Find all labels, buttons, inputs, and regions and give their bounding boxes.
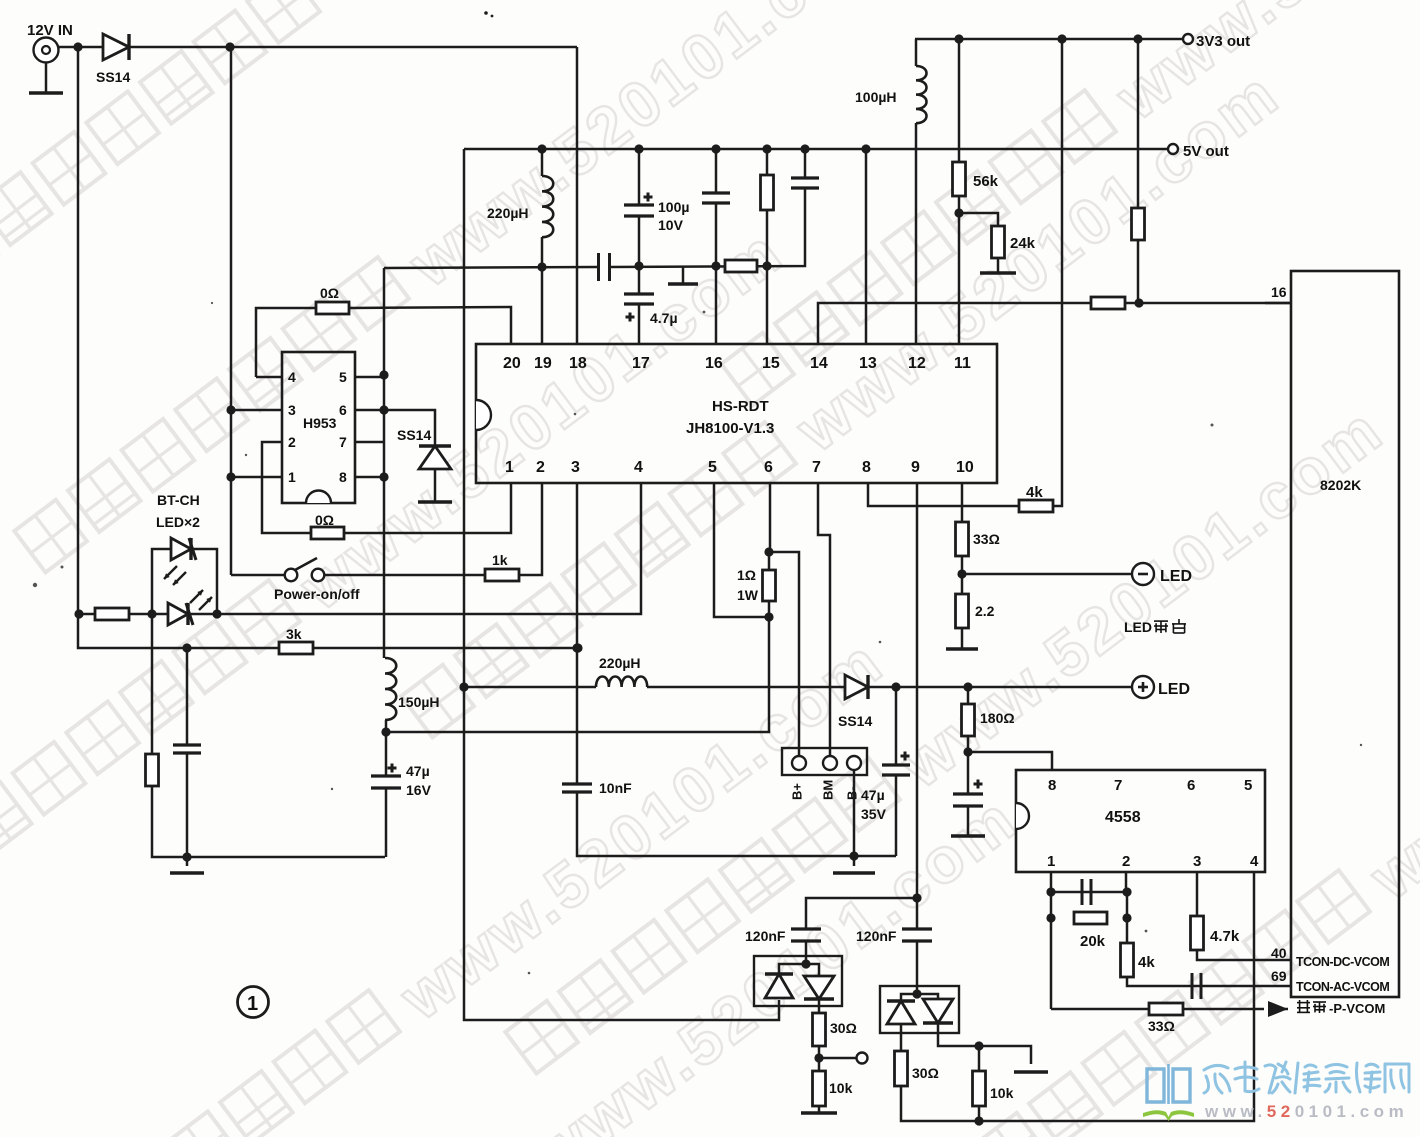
svg-text:1Ω: 1Ω — [737, 567, 756, 583]
svg-text:LED: LED — [1160, 568, 1192, 585]
svg-text:2: 2 — [288, 434, 296, 450]
svg-text:8202K: 8202K — [1320, 477, 1361, 493]
svg-text:1k: 1k — [492, 552, 508, 568]
svg-text:9: 9 — [911, 459, 920, 476]
svg-text:H953: H953 — [303, 415, 337, 431]
svg-text:220µH: 220µH — [599, 655, 641, 671]
svg-text:10k: 10k — [829, 1080, 853, 1096]
svg-text:100µH: 100µH — [855, 89, 897, 105]
svg-text:1: 1 — [288, 469, 296, 485]
svg-text:11: 11 — [954, 355, 971, 372]
svg-text:4: 4 — [1250, 853, 1259, 870]
svg-text:12V IN: 12V IN — [27, 22, 73, 39]
svg-text:14: 14 — [810, 355, 828, 372]
svg-text:4k: 4k — [1026, 484, 1043, 501]
svg-text:150µH: 150µH — [398, 694, 440, 710]
svg-text:13: 13 — [859, 355, 877, 372]
svg-text:4.7µ: 4.7µ — [650, 310, 678, 326]
svg-text:6: 6 — [339, 402, 347, 418]
svg-text:1: 1 — [247, 993, 258, 1015]
svg-text:7: 7 — [812, 459, 821, 476]
svg-text:18: 18 — [569, 355, 587, 372]
svg-text:2: 2 — [536, 459, 545, 476]
svg-text:LED×2: LED×2 — [156, 514, 200, 530]
svg-text:4.7k: 4.7k — [1210, 928, 1240, 945]
svg-text:17: 17 — [632, 355, 650, 372]
svg-text:20k: 20k — [1080, 933, 1106, 950]
svg-text:4558: 4558 — [1105, 809, 1141, 826]
svg-text:47µ: 47µ — [406, 763, 430, 779]
svg-text:1: 1 — [505, 459, 514, 476]
svg-text:120nF: 120nF — [856, 928, 897, 944]
svg-text:12: 12 — [908, 355, 926, 372]
svg-text:30Ω: 30Ω — [912, 1065, 939, 1081]
svg-text:100µ: 100µ — [658, 199, 689, 215]
svg-text:47µ: 47µ — [861, 787, 885, 803]
svg-text:B-: B- — [845, 786, 860, 800]
svg-text:BM: BM — [821, 780, 836, 800]
svg-text:16: 16 — [705, 355, 723, 372]
svg-text:7: 7 — [1114, 777, 1122, 794]
svg-text:24k: 24k — [1010, 235, 1036, 252]
svg-text:5V out: 5V out — [1183, 143, 1229, 160]
svg-text:5: 5 — [339, 369, 347, 385]
svg-text:HS-RDT: HS-RDT — [712, 398, 769, 415]
svg-text:5: 5 — [708, 459, 717, 476]
svg-text:1: 1 — [1047, 853, 1055, 870]
svg-text:3: 3 — [1193, 853, 1201, 870]
svg-text:35V: 35V — [861, 806, 887, 822]
svg-text:40: 40 — [1271, 945, 1287, 961]
svg-text:JH8100-V1.3: JH8100-V1.3 — [686, 420, 774, 437]
svg-text:SS14: SS14 — [96, 69, 130, 85]
svg-text:0Ω: 0Ω — [320, 285, 339, 301]
svg-text:8: 8 — [862, 459, 871, 476]
svg-text:-P-VCOM: -P-VCOM — [1329, 1001, 1385, 1016]
svg-text:180Ω: 180Ω — [980, 710, 1015, 726]
svg-text:4: 4 — [288, 369, 296, 385]
svg-text:220µH: 220µH — [487, 205, 529, 221]
svg-text:0Ω: 0Ω — [315, 512, 334, 528]
svg-text:6: 6 — [764, 459, 773, 476]
svg-text:6: 6 — [1187, 777, 1195, 794]
svg-text:8: 8 — [339, 469, 347, 485]
svg-text:TCON-AC-VCOM: TCON-AC-VCOM — [1296, 980, 1389, 994]
svg-text:69: 69 — [1271, 968, 1287, 984]
svg-text:2.2: 2.2 — [975, 603, 995, 619]
svg-text:B+: B+ — [790, 783, 805, 800]
svg-text:3: 3 — [571, 459, 580, 476]
svg-text:19: 19 — [534, 355, 552, 372]
svg-text:10nF: 10nF — [599, 780, 632, 796]
svg-text:8: 8 — [1048, 777, 1056, 794]
svg-text:16V: 16V — [406, 782, 432, 798]
svg-text:120nF: 120nF — [745, 928, 786, 944]
svg-text:3: 3 — [288, 402, 296, 418]
svg-text:SS14: SS14 — [838, 713, 872, 729]
svg-text:4: 4 — [634, 459, 643, 476]
svg-text:LED: LED — [1124, 619, 1152, 635]
svg-text:2: 2 — [1122, 853, 1130, 870]
svg-text:33Ω: 33Ω — [1148, 1018, 1175, 1034]
svg-text:SS14: SS14 — [397, 427, 431, 443]
svg-text:10V: 10V — [658, 217, 684, 233]
svg-text:7: 7 — [339, 434, 347, 450]
svg-text:LED: LED — [1158, 681, 1190, 698]
svg-text:56k: 56k — [973, 173, 999, 190]
svg-text:3V3 out: 3V3 out — [1196, 33, 1250, 50]
svg-text:TCON-DC-VCOM: TCON-DC-VCOM — [1296, 955, 1389, 969]
svg-text:3k: 3k — [286, 626, 302, 642]
svg-text:4k: 4k — [1138, 954, 1155, 971]
svg-text:Power-on/off: Power-on/off — [274, 586, 360, 602]
svg-text:10k: 10k — [990, 1085, 1014, 1101]
svg-text:15: 15 — [762, 355, 780, 372]
svg-text:16: 16 — [1271, 284, 1287, 300]
svg-text:5: 5 — [1244, 777, 1252, 794]
svg-text:33Ω: 33Ω — [973, 531, 1000, 547]
svg-text:BT-CH: BT-CH — [157, 492, 200, 508]
svg-text:30Ω: 30Ω — [830, 1020, 857, 1036]
svg-text:20: 20 — [503, 355, 521, 372]
svg-text:1W: 1W — [737, 587, 759, 603]
svg-text:www.520101.com: www.520101.com — [1204, 1102, 1408, 1121]
svg-text:10: 10 — [956, 459, 974, 476]
